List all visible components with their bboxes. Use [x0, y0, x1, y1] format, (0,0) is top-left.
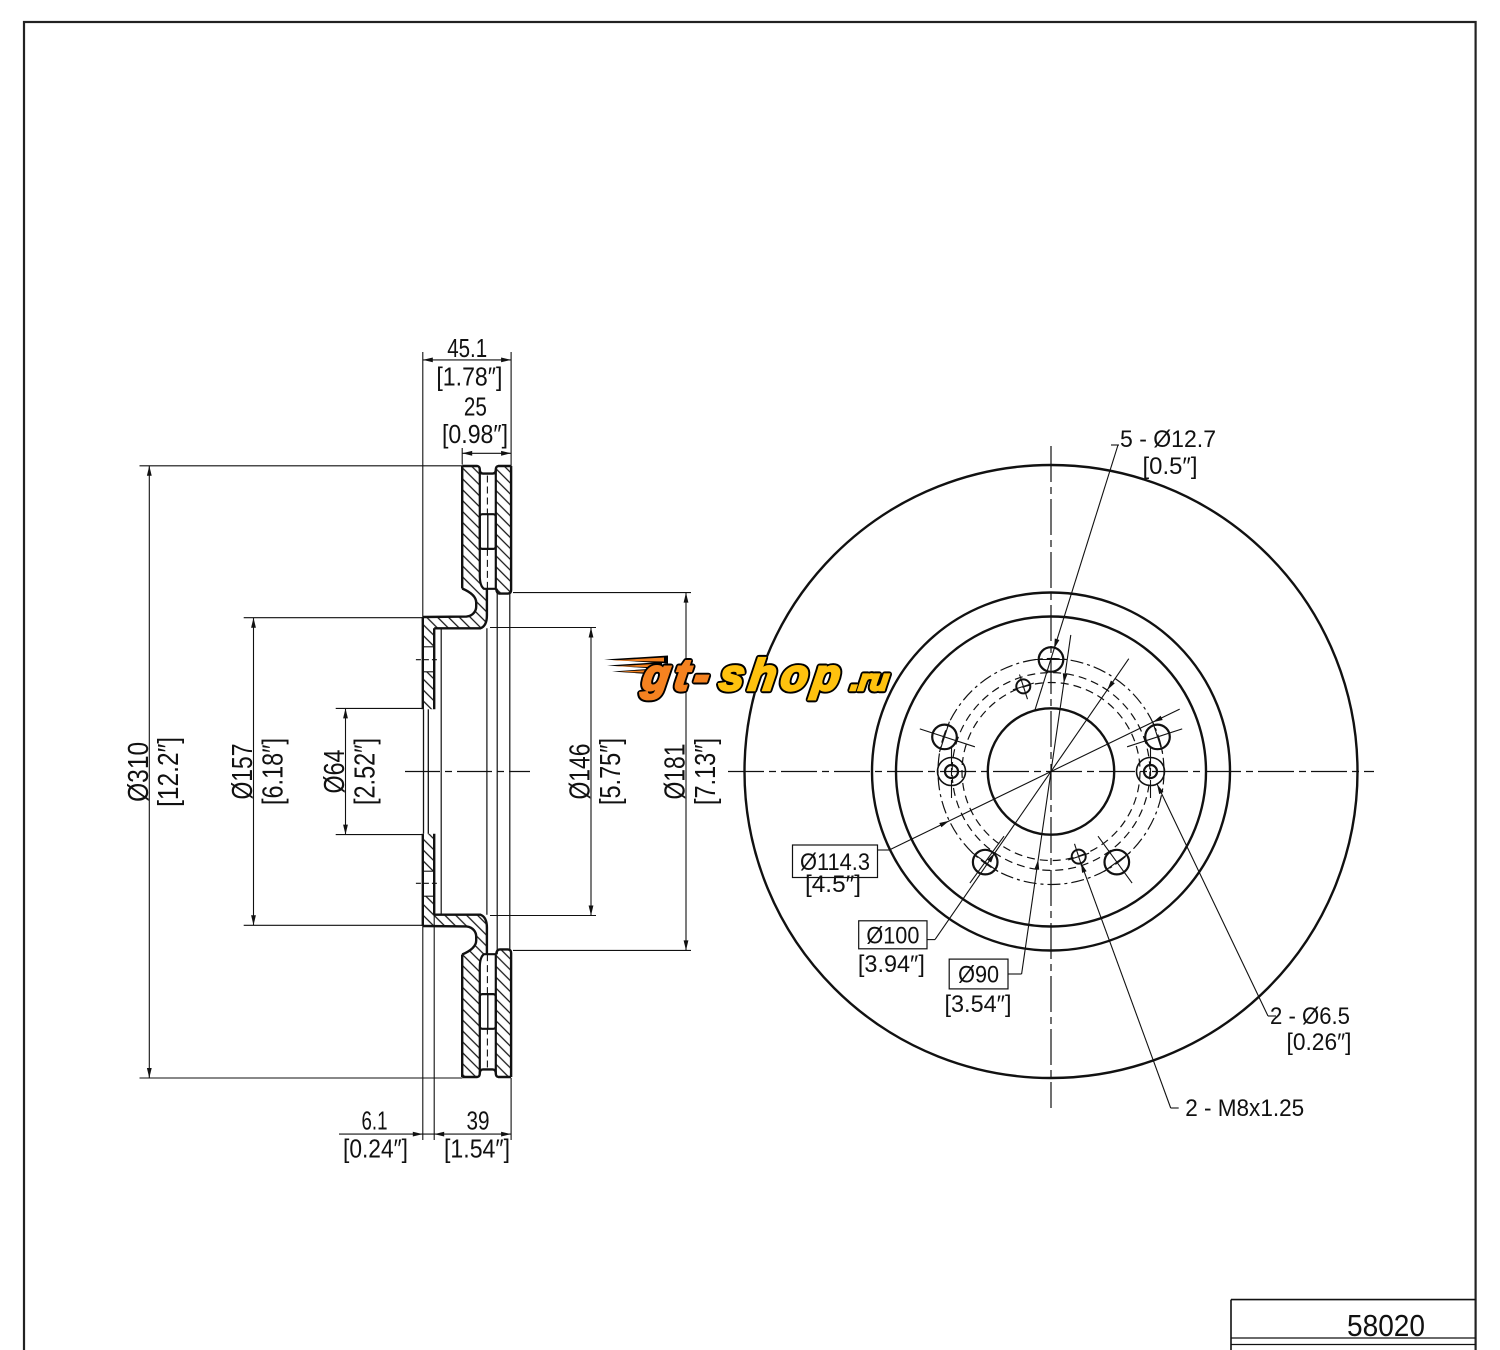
svg-text:[3.94″]: [3.94″]: [858, 951, 925, 978]
svg-text:[6.18″]: [6.18″]: [257, 738, 289, 805]
svg-text:Ø146: Ø146: [565, 744, 597, 800]
svg-text:[2.52″]: [2.52″]: [349, 738, 381, 805]
svg-text:[0.24″]: [0.24″]: [343, 1136, 408, 1164]
svg-text:Ø100: Ø100: [866, 922, 919, 949]
svg-text:[0.26″]: [0.26″]: [1287, 1029, 1352, 1056]
svg-text:Ø90: Ø90: [958, 962, 999, 989]
svg-text:Ø64: Ø64: [319, 749, 351, 793]
svg-text:[3.54″]: [3.54″]: [945, 991, 1012, 1018]
svg-text:gt-: gt-: [639, 651, 718, 700]
svg-text:2 - M8x1.25: 2 - M8x1.25: [1185, 1095, 1304, 1122]
svg-text:Ø310: Ø310: [123, 742, 155, 802]
svg-text:[1.54″]: [1.54″]: [444, 1136, 510, 1164]
svg-text:[4.5″]: [4.5″]: [805, 871, 861, 898]
svg-text:[0.98″]: [0.98″]: [442, 421, 508, 449]
svg-text:6.1: 6.1: [362, 1108, 388, 1136]
svg-text:2 - Ø6.5: 2 - Ø6.5: [1270, 1003, 1350, 1030]
svg-text:[1.78″]: [1.78″]: [436, 364, 502, 392]
svg-text:[0.5″]: [0.5″]: [1143, 453, 1198, 480]
svg-text:45.1: 45.1: [447, 335, 487, 363]
svg-text:[12.2″]: [12.2″]: [153, 737, 185, 807]
svg-text:25: 25: [464, 394, 487, 422]
svg-text:Ø181: Ø181: [660, 744, 692, 800]
svg-text:[5.75″]: [5.75″]: [595, 738, 627, 805]
svg-text:[7.13″]: [7.13″]: [690, 738, 722, 805]
svg-text:.ru: .ru: [849, 665, 891, 697]
svg-text:5 - Ø12.7: 5 - Ø12.7: [1120, 426, 1216, 453]
svg-text:39: 39: [467, 1108, 490, 1136]
svg-text:58020: 58020: [1347, 1308, 1425, 1343]
svg-text:shop: shop: [717, 651, 849, 700]
svg-text:Ø157: Ø157: [227, 744, 259, 800]
